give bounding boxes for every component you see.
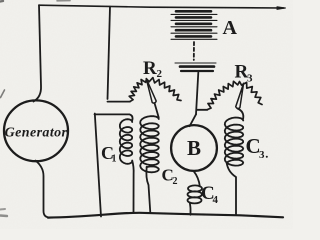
coil C4 bbox=[188, 185, 202, 191]
svg-text:2: 2 bbox=[157, 68, 163, 80]
scan speck top-left corner bbox=[0, 0, 3, 3]
wire B bottom to C4 bbox=[194, 171, 200, 186]
wire C1 top horizontal bbox=[95, 114, 133, 120]
wire R2 slider to C2 top bbox=[155, 103, 159, 118]
coil C3 bbox=[225, 118, 243, 166]
svg-text:3: 3 bbox=[247, 73, 253, 85]
svg-text:1: 1 bbox=[112, 154, 117, 165]
resistor R2 (rheostat arc) bbox=[129, 78, 181, 102]
detector B bbox=[171, 125, 217, 171]
scan smudge left edge lower bbox=[0, 208, 5, 211]
wire left vertical from top-left corner to generator bbox=[34, 5, 42, 101]
wire R2 left terminal bbox=[108, 101, 131, 103]
wire bottom bus bbox=[48, 213, 283, 218]
arrowhead at right end of top wire bbox=[277, 7, 286, 10]
wire generator bottom lead to bottom bus bbox=[36, 161, 51, 218]
wire vertical feed to R2 from top bus bbox=[108, 7, 111, 99]
wire stub to R3 bbox=[197, 109, 208, 111]
R3 slider blade bbox=[236, 83, 244, 108]
R2 slider blade bbox=[146, 79, 156, 104]
battery cells below dashes bbox=[175, 62, 216, 64]
wire battery lead down bbox=[196, 73, 198, 115]
svg-text:2: 2 bbox=[173, 176, 178, 187]
wire battery lead to B top bbox=[190, 114, 196, 126]
wire C3 bottom lead bbox=[227, 163, 236, 215]
wire R3 slider to C3 top bbox=[238, 109, 244, 120]
svg-text:Generator: Generator bbox=[5, 126, 68, 141]
scan smudge left edge upper bbox=[1, 90, 5, 98]
resistor R3 (rheostat arc) bbox=[208, 81, 263, 109]
battery A (voltaic pile) bbox=[176, 10, 211, 13]
svg-text:A: A bbox=[223, 17, 238, 39]
coil C1 bbox=[120, 119, 132, 164]
wire C2 bottom lead bbox=[146, 167, 150, 213]
wire left branch vertical bbox=[95, 114, 101, 217]
scan faint mark top edge bbox=[57, 0, 70, 2]
svg-text:3: 3 bbox=[259, 149, 265, 161]
wire C4 bottom lead bbox=[189, 203, 192, 215]
dashed lead from pile to cell battery bbox=[193, 42, 195, 60]
coil C2 bbox=[140, 116, 159, 172]
wire top bus bbox=[39, 5, 284, 8]
svg-text:B: B bbox=[187, 136, 201, 160]
generator G bbox=[4, 100, 68, 161]
svg-text:4: 4 bbox=[213, 194, 219, 206]
wire C1 bottom lead bbox=[132, 161, 133, 213]
svg-text:R: R bbox=[143, 58, 157, 79]
